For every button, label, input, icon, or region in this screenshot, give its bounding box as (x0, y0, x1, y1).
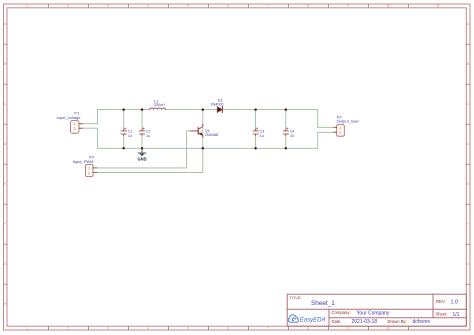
junction node C3 bottom (254, 147, 257, 150)
wire left vertical top (97, 110, 99, 124)
svg-text:2: 2 (88, 171, 90, 175)
svg-text:Sheet:: Sheet: (436, 312, 448, 317)
junction node C4 top (285, 108, 288, 111)
svg-text:REV:: REV: (436, 299, 446, 304)
svg-text:1: 1 (26, 4, 28, 8)
svg-text:1.0: 1.0 (451, 299, 459, 305)
capacitor C4 (283, 128, 288, 136)
ground GND (137, 148, 146, 161)
svg-text:F: F (467, 222, 469, 226)
junction node C2 top (141, 108, 144, 111)
svg-text:Your Company: Your Company (357, 310, 390, 316)
wire top rail (98, 109, 318, 111)
wire P3 pin2 to bottom rail (97, 148, 203, 172)
svg-text:3: 3 (107, 326, 109, 330)
wire left vertical bottom (97, 128, 99, 148)
svg-text:3: 3 (107, 4, 109, 8)
wire right vertical top to P2 pin1 (318, 110, 334, 128)
svg-text:GND: GND (137, 156, 146, 161)
svg-text:2: 2 (67, 326, 69, 330)
svg-text:1N4001: 1N4001 (210, 102, 224, 107)
svg-text:E: E (4, 182, 6, 186)
title block (287, 294, 466, 326)
wire bottom rail (98, 147, 318, 149)
svg-text:B: B (4, 62, 6, 66)
svg-text:330uH: 330uH (154, 103, 165, 107)
svg-text:Input_PWM: Input_PWM (73, 159, 94, 164)
svg-text:Company:: Company: (332, 310, 351, 315)
wire C2 branch (141, 110, 143, 149)
diode D1 (217, 107, 222, 113)
junction node C4 bottom (285, 147, 288, 150)
svg-text:1/1: 1/1 (453, 312, 460, 318)
svg-text:Date:: Date: (332, 319, 342, 324)
svg-text:1: 1 (88, 166, 90, 170)
svg-text:7: 7 (267, 326, 269, 330)
connector P1 (71, 121, 83, 134)
junction node C1 top (122, 108, 125, 111)
svg-text:6: 6 (227, 326, 229, 330)
svg-text:10: 10 (386, 326, 390, 330)
svg-text:EasyEDA: EasyEDA (300, 317, 326, 323)
svg-text:Drawn By:: Drawn By: (388, 319, 407, 324)
capacitor C3 (253, 128, 258, 136)
svg-text:Sheet_1: Sheet_1 (311, 300, 335, 307)
junction node C1 bottom (122, 147, 125, 150)
svg-text:2021-03-18: 2021-03-18 (352, 319, 378, 325)
wire C4 branch (285, 110, 287, 149)
svg-text:Output_load: Output_load (337, 119, 359, 124)
svg-text:7: 7 (267, 4, 269, 8)
svg-text:Input_voltage: Input_voltage (56, 115, 81, 120)
svg-text:11: 11 (436, 4, 440, 8)
junction node C2 bottom / GND tap (141, 147, 144, 150)
svg-text:E: E (467, 182, 469, 186)
svg-text:1u: 1u (146, 134, 150, 138)
transistor Q1 (190, 125, 203, 138)
svg-text:1u: 1u (128, 134, 132, 138)
connector P2 (334, 125, 345, 137)
svg-text:8: 8 (307, 326, 309, 330)
junction node A (202, 108, 205, 111)
svg-text:5: 5 (187, 326, 189, 330)
svg-text:1u: 1u (290, 134, 294, 138)
svg-text:4: 4 (147, 4, 149, 8)
svg-text:10: 10 (386, 4, 390, 8)
svg-text:B: B (467, 62, 469, 66)
connector P3 (86, 165, 97, 177)
wire Q1 base to P3 pin1 (97, 131, 191, 168)
svg-text:5: 5 (187, 4, 189, 8)
svg-text:2: 2 (67, 4, 69, 8)
wire C1 branch (123, 110, 125, 149)
capacitor C2 (139, 128, 144, 136)
svg-text:2N6488: 2N6488 (205, 132, 219, 137)
junction node C3 top (254, 108, 257, 111)
svg-text:1: 1 (74, 122, 76, 126)
wire node A vertical through Q1 (202, 110, 204, 149)
svg-text:dchorev: dchorev (413, 319, 431, 325)
svg-text:TITLE:: TITLE: (290, 295, 302, 300)
wire right vertical bottom to P2 pin2 (318, 132, 334, 148)
wire C3 branch (255, 110, 257, 149)
wire P1 pin2 (83, 127, 98, 129)
capacitor C1 (121, 128, 126, 136)
svg-text:9: 9 (347, 4, 349, 8)
junction node Q1 emitter rail (202, 147, 205, 150)
svg-text:1u: 1u (260, 134, 264, 138)
wire P1 pin1 to left vertical (83, 123, 98, 125)
svg-text:8: 8 (307, 4, 309, 8)
svg-text:6: 6 (227, 4, 229, 8)
EasyEDA logo cloud (288, 315, 298, 322)
svg-text:2: 2 (74, 127, 76, 131)
svg-text:2: 2 (339, 131, 341, 135)
svg-text:9: 9 (347, 326, 349, 330)
svg-text:1: 1 (26, 326, 28, 330)
svg-text:F: F (4, 222, 6, 226)
svg-text:1: 1 (339, 126, 341, 130)
svg-text:4: 4 (147, 326, 149, 330)
inductor L1 (150, 108, 166, 110)
